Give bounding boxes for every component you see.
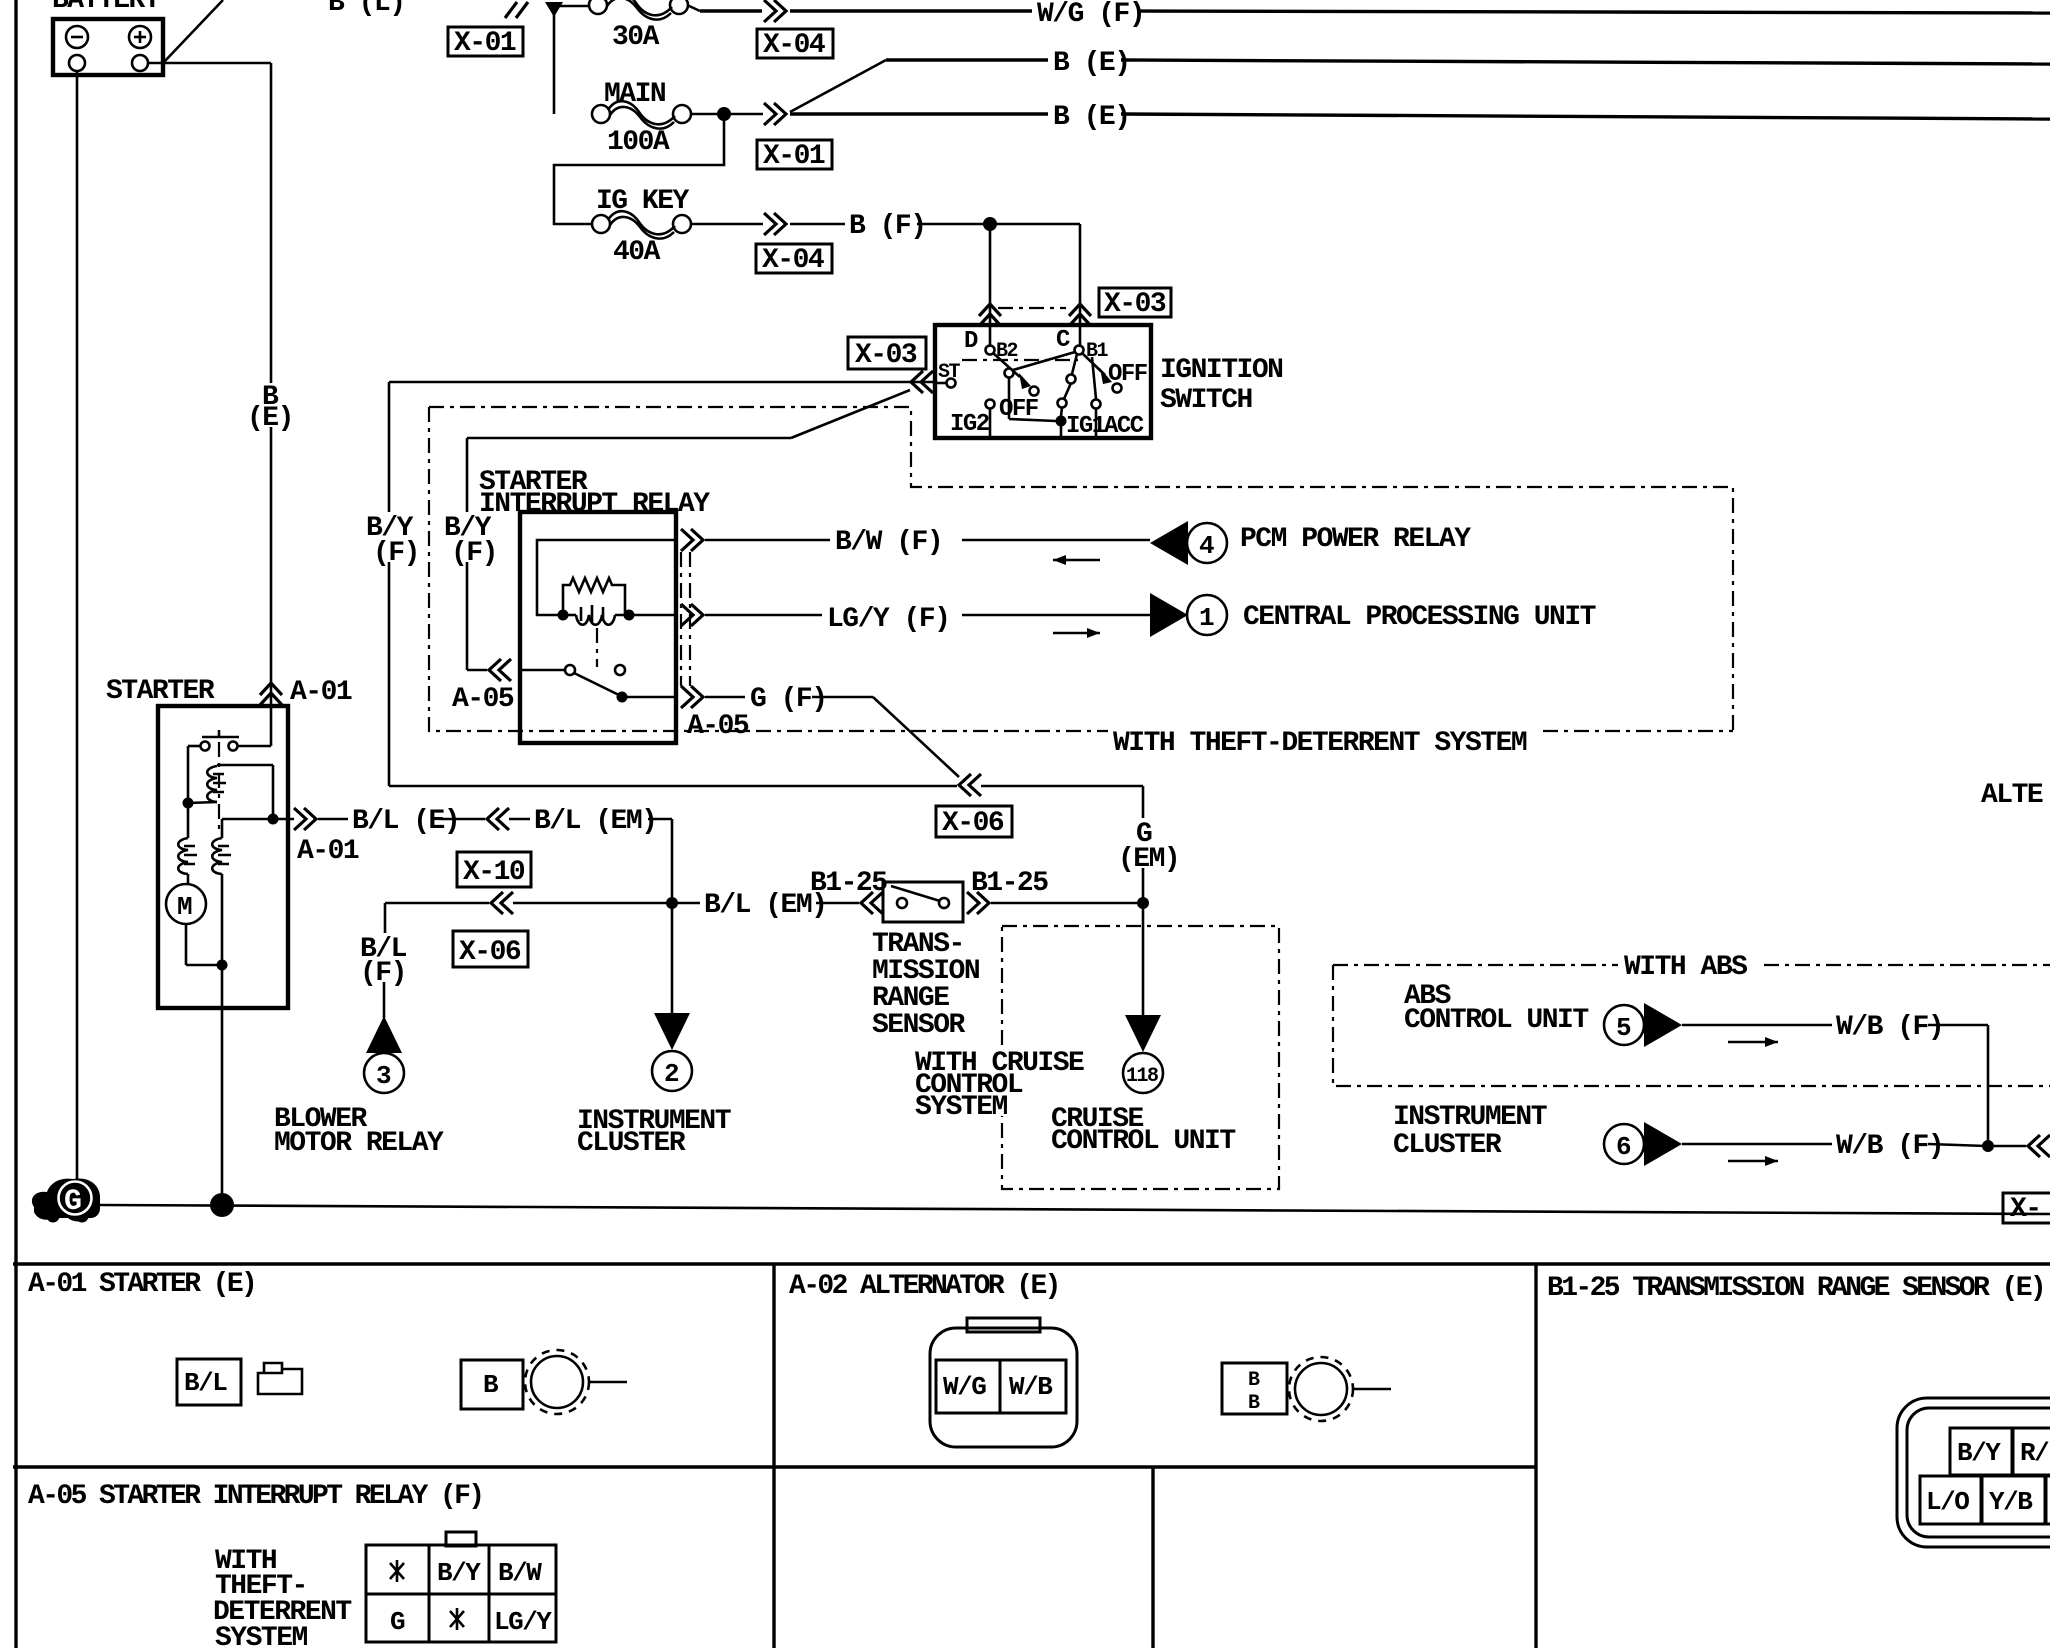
- svg-text:B/W (F): B/W (F): [835, 527, 942, 558]
- svg-text:LG/Y: LG/Y: [494, 1607, 552, 1637]
- svg-text:A-01: A-01: [290, 677, 352, 708]
- junction dot MAIN output: [717, 107, 731, 121]
- chevron MAIN output: [764, 103, 786, 125]
- svg-text:INSTRUMENT: INSTRUMENT: [1393, 1102, 1547, 1133]
- direction arrow right 5: [1728, 1037, 1778, 1047]
- pin box B: [461, 1360, 523, 1409]
- terminal ACC: [1096, 408, 1144, 440]
- wire G (F): [705, 697, 959, 777]
- svg-text:X-04: X-04: [763, 30, 825, 61]
- svg-text:A-05: A-05: [687, 711, 749, 742]
- wire step MAIN junction to IG KEY fuse: [554, 114, 724, 224]
- svg-text:W/B (F): W/B (F): [1836, 1131, 1943, 1162]
- svg-text:L/O: L/O: [1926, 1487, 1969, 1517]
- chevron IG KEY output: [764, 213, 786, 235]
- wire B/Y to G(EM) horizontal: [389, 786, 1143, 1015]
- svg-text:A-02 ALTERNATOR (E): A-02 ALTERNATOR (E): [789, 1271, 1059, 1302]
- svg-text:CENTRAL PROCESSING UNIT: CENTRAL PROCESSING UNIT: [1243, 602, 1596, 633]
- arrow 2 instrument cluster: [652, 1013, 692, 1091]
- wire B/L (EM) upper: [509, 819, 672, 1013]
- starter interrupt relay box: [520, 512, 676, 743]
- svg-text:B1-25: B1-25: [971, 868, 1048, 899]
- svg-text:CLUSTER: CLUSTER: [577, 1128, 686, 1159]
- table outer top border: [13, 1262, 2050, 1265]
- svg-text:1: 1: [1199, 603, 1214, 633]
- svg-text:R/: R/: [2020, 1438, 2049, 1468]
- fuse IG KEY 40A: [592, 186, 691, 268]
- svg-text:BATTERY: BATTERY: [52, 0, 161, 16]
- connector label box X-06: [453, 931, 528, 968]
- ignition C arm to OFF: [1082, 353, 1147, 393]
- connector chevron X-03 on D wire: [979, 304, 1001, 326]
- table row divider: [13, 1465, 1536, 1468]
- wire W/B (F) lower: [1682, 1144, 2026, 1146]
- ignition D arm to OFF: [993, 353, 1039, 423]
- svg-text:B: B: [483, 1370, 499, 1400]
- svg-text:D: D: [964, 328, 978, 355]
- terminal lug icon: [258, 1363, 302, 1394]
- leader line to battery positive: [164, 0, 223, 62]
- connector chevron A-01 on battery wire: [260, 683, 282, 705]
- svg-text:X-03: X-03: [1104, 289, 1166, 320]
- relay switch: [520, 665, 676, 703]
- svg-text:W/B: W/B: [1009, 1372, 1053, 1402]
- table lower middle divider: [1151, 1467, 1154, 1648]
- svg-text:A-01 STARTER (E): A-01 STARTER (E): [28, 1269, 255, 1300]
- chevron sensor input: [861, 892, 883, 914]
- connector label box X-06 right: [936, 806, 1012, 839]
- wire B/L (F) down: [384, 903, 385, 1018]
- connector label box X-01 lower: [757, 140, 832, 172]
- svg-text:C: C: [1056, 327, 1070, 354]
- svg-text:WITH ABS: WITH ABS: [1624, 952, 1747, 983]
- starter pull-in winding: [188, 765, 273, 803]
- page left border: [14, 0, 17, 1264]
- battery BT1: [53, 19, 163, 75]
- connector dashes A-05: [681, 552, 690, 686]
- connector label box X- clipped: [2003, 1193, 2050, 1225]
- direction arrow left: [1053, 555, 1100, 565]
- wire battery plus B(E) down to starter: [148, 63, 271, 704]
- table left border: [14, 1264, 17, 1648]
- svg-text:B/L (E): B/L (E): [352, 806, 459, 837]
- svg-text:G (F): G (F): [750, 684, 827, 715]
- wire fuse feed vertical with arrowhead: [545, 2, 589, 114]
- direction arrow right 6: [1728, 1156, 1778, 1166]
- wire B(F) down to ignition C: [1079, 224, 1082, 347]
- svg-text:B/Y: B/Y: [437, 1558, 481, 1588]
- connector label box X-01: [448, 27, 523, 59]
- svg-text:IG KEY: IG KEY: [596, 186, 690, 217]
- junction dot ground: [210, 1193, 234, 1217]
- wire B(F) down to ignition D: [989, 224, 992, 347]
- wire MAIN fuse output B(E): [690, 114, 2050, 119]
- label CRUISE CONTROL UNIT: [1051, 1104, 1235, 1157]
- svg-text:M: M: [177, 892, 192, 922]
- svg-text:IG1: IG1: [1066, 413, 1106, 440]
- svg-text:(F): (F): [360, 958, 406, 989]
- relay coil: [563, 605, 676, 625]
- svg-text:B: B: [1248, 1392, 1260, 1415]
- connector label box X-04: [757, 29, 833, 61]
- connector label box X-10: [457, 852, 531, 888]
- wire ST to B/Y(F) left: [389, 382, 933, 786]
- wire W/G (F) top line: [700, 11, 2050, 13]
- relay dashed actuator link: [596, 628, 598, 667]
- svg-text:X-: X-: [2010, 1194, 2041, 1225]
- svg-text:(E): (E): [247, 403, 293, 434]
- junction dot starter left: [183, 798, 194, 809]
- chevron relay B/W output: [681, 529, 703, 551]
- svg-text:PCM POWER RELAY: PCM POWER RELAY: [1240, 524, 1471, 555]
- wire 30A to W/G line: [687, 5, 700, 11]
- wire IG KEY output B(F): [690, 223, 1080, 226]
- wire LG/Y (F) to CPU: [705, 614, 1150, 617]
- svg-text:2: 2: [664, 1059, 679, 1089]
- starter solenoid contact: [188, 704, 271, 801]
- svg-text:118: 118: [1126, 1065, 1158, 1088]
- ground symbol G: [32, 1178, 100, 1222]
- wire W/B (F) upper: [1682, 1025, 1988, 1146]
- svg-text:ACC: ACC: [1104, 413, 1144, 440]
- svg-text:STARTER: STARTER: [106, 676, 215, 707]
- terminal IG2: [950, 400, 995, 439]
- svg-text:B/L (EM): B/L (EM): [534, 806, 656, 837]
- chevron W/B right edge: [2028, 1135, 2050, 1157]
- arrow 4 PCM POWER RELAY: [1150, 521, 1227, 565]
- svg-text:CONTROL UNIT: CONTROL UNIT: [1404, 1005, 1588, 1036]
- connector chevron X-03 on C wire: [1069, 304, 1091, 326]
- B1-25 connector: [1897, 1398, 2050, 1547]
- svg-text:6: 6: [1616, 1132, 1631, 1162]
- svg-text:(F): (F): [373, 538, 419, 569]
- connector label box X-03 top: [1099, 288, 1171, 320]
- arrow 3 blower motor relay: [364, 1016, 404, 1093]
- starter dashed actuator: [218, 742, 220, 834]
- junction dot G(EM): [1137, 897, 1149, 909]
- svg-text:W/G (F): W/G (F): [1037, 0, 1144, 30]
- svg-text:W/B (F): W/B (F): [1836, 1012, 1943, 1043]
- svg-text:SYSTEM: SYSTEM: [215, 1623, 308, 1648]
- svg-text:LG/Y (F): LG/Y (F): [827, 604, 949, 635]
- dashed mechanical link in ignition switch: [962, 359, 1078, 361]
- svg-text:X-03: X-03: [855, 340, 917, 371]
- ground bus wire: [100, 1205, 2050, 1214]
- svg-text:(F): (F): [451, 538, 497, 569]
- ignition switch box: [935, 325, 1151, 438]
- wire B/L (E): [273, 818, 485, 821]
- svg-text:CONTROL UNIT: CONTROL UNIT: [1051, 1126, 1235, 1157]
- table divider A-01/A-02: [772, 1264, 775, 1648]
- ring terminal A-01: [525, 1350, 627, 1414]
- label WITH THEFT-DETERRENT SYSTEM table: [213, 1546, 351, 1648]
- svg-text:X-04: X-04: [762, 245, 824, 276]
- svg-text:(EM): (EM): [1118, 844, 1179, 875]
- chevron relay input A-05: [489, 659, 511, 681]
- cruise control dashed box: [1002, 926, 1279, 1189]
- svg-text:B/L: B/L: [184, 1368, 227, 1398]
- wire ST diagonal to B/Y(F) second: [467, 390, 910, 670]
- starter motor M: [166, 884, 222, 965]
- svg-text:B (L): B (L): [328, 0, 405, 19]
- svg-text:B (F): B (F): [849, 211, 926, 242]
- svg-text:B/W: B/W: [498, 1558, 542, 1588]
- starter hold winding left: [178, 803, 197, 884]
- svg-text:30A: 30A: [612, 22, 660, 53]
- svg-text:SENSOR: SENSOR: [872, 1010, 966, 1041]
- chevron on G wire: [959, 774, 981, 796]
- svg-text:B (E): B (E): [1053, 48, 1130, 79]
- fuse 30A: [589, 0, 688, 20]
- svg-text:B (E): B (E): [1053, 102, 1130, 133]
- starter winding right: [212, 819, 231, 965]
- svg-text:X-01: X-01: [454, 28, 516, 59]
- direction arrow right: [1053, 628, 1100, 638]
- svg-text:ALTE: ALTE: [1981, 780, 2043, 811]
- chevron relay LG/Y output: [681, 604, 703, 626]
- terminal IG1: [1056, 413, 1106, 440]
- wire battery minus to ground: [76, 71, 79, 1182]
- chevron X-06: [491, 892, 513, 914]
- alternator connector: [930, 1318, 1077, 1447]
- arrow 1 CENTRAL PROCESSING UNIT: [1150, 593, 1227, 637]
- svg-text:CLUSTER: CLUSTER: [1393, 1130, 1502, 1161]
- pin box B B: [1222, 1363, 1287, 1415]
- svg-text:A-01: A-01: [297, 836, 359, 867]
- dash between X-03 chevrons: [998, 307, 1066, 309]
- svg-text:IGNITION: IGNITION: [1160, 355, 1282, 386]
- svg-text:B1-25: B1-25: [810, 868, 887, 899]
- svg-text:MOTOR RELAY: MOTOR RELAY: [274, 1128, 444, 1159]
- junction dot starter B/L: [268, 814, 279, 825]
- svg-text:B/L (EM): B/L (EM): [704, 890, 826, 921]
- label TRANS-MISSION RANGE SENSOR: [872, 929, 979, 1041]
- chevron X-10: [487, 808, 509, 830]
- starter box: [158, 706, 288, 1008]
- ignition C fan contacts: [1005, 352, 1101, 421]
- fuse MAIN 100A: [592, 79, 691, 158]
- svg-text:ST: ST: [938, 361, 961, 384]
- arrow 118 cruise control unit: [1123, 1015, 1163, 1093]
- chevron on W/G line: [764, 0, 786, 22]
- junction dot W/B: [1982, 1140, 1994, 1152]
- svg-text:IG2: IG2: [950, 411, 989, 438]
- label WITH CRUISE CONTROL SYSTEM: [912, 1046, 1092, 1123]
- wire starter to ground: [221, 965, 224, 1206]
- arrow 5 ABS control unit: [1604, 1003, 1682, 1047]
- chevron ST wire: [911, 371, 933, 393]
- svg-text:B/Y: B/Y: [1957, 1438, 2001, 1468]
- svg-text:X-06: X-06: [459, 937, 521, 968]
- chevron relay G output: [681, 686, 703, 708]
- svg-text:X-06: X-06: [942, 808, 1004, 839]
- label ABS CONTROL UNIT: [1404, 981, 1588, 1036]
- junction dot B(F): [983, 217, 997, 231]
- svg-text:SYSTEM: SYSTEM: [915, 1092, 1008, 1123]
- chevron pair top (clipped wire): [505, 2, 528, 18]
- svg-text:SWITCH: SWITCH: [1160, 385, 1252, 416]
- svg-text:5: 5: [1616, 1013, 1631, 1043]
- label INSTRUMENT CLUSTER right: [1393, 1102, 1547, 1161]
- svg-text:100A: 100A: [607, 127, 670, 158]
- relay resistor: [563, 578, 625, 615]
- svg-text:B1-25 TRANSMISSION RANGE SENSO: B1-25 TRANSMISSION RANGE SENSOR (E): [1547, 1273, 2044, 1304]
- starter B/L tap wire: [222, 765, 273, 819]
- svg-text:W/G: W/G: [943, 1372, 986, 1402]
- svg-text:A-05: A-05: [452, 684, 514, 715]
- connector A-05 pin grid: [366, 1532, 556, 1642]
- wire B/W (F) to PCM relay: [705, 539, 1150, 542]
- svg-text:G: G: [390, 1607, 405, 1637]
- svg-text:OFF: OFF: [1108, 361, 1147, 388]
- svg-text:40A: 40A: [613, 237, 661, 268]
- chevron starter B/L output A-01: [294, 808, 316, 830]
- wire B/L (EM) lower branch: [385, 902, 859, 905]
- svg-text:X-10: X-10: [463, 857, 525, 888]
- connector label box X-03 left: [848, 337, 926, 371]
- svg-text:G: G: [64, 1185, 81, 1219]
- svg-text:WITH THEFT-DETERRENT SYSTEM: WITH THEFT-DETERRENT SYSTEM: [1113, 728, 1527, 759]
- transmission range sensor box: [883, 882, 963, 922]
- svg-text:B: B: [1248, 1369, 1260, 1392]
- svg-text:4: 4: [1199, 531, 1214, 561]
- wire sensor to G(EM) junction: [991, 902, 1143, 905]
- with ABS dashed box: [1333, 965, 2050, 1086]
- arrow 6 instrument cluster: [1604, 1122, 1682, 1166]
- svg-text:X-01: X-01: [763, 141, 825, 172]
- svg-text:Y/B: Y/B: [1989, 1487, 2033, 1517]
- pin box B/L: [177, 1359, 241, 1405]
- relay internal B/W wire: [537, 540, 676, 615]
- junction dot B/L (EM): [666, 897, 678, 909]
- connector label box X-04 lower: [756, 244, 832, 276]
- table divider A-02/B1-25: [1534, 1264, 1537, 1648]
- wire diagonal branch to upper B(E): [790, 60, 2050, 112]
- chevron sensor output: [967, 892, 989, 914]
- ring terminal A-02: [1289, 1357, 1391, 1421]
- terminal ST: [935, 361, 961, 388]
- relay coil junction dots: [558, 610, 569, 621]
- junction dot starter bottom: [217, 960, 228, 971]
- svg-text:3: 3: [376, 1061, 391, 1091]
- svg-text:A-05 STARTER INTERRUPT RELAY (: A-05 STARTER INTERRUPT RELAY (F): [28, 1481, 483, 1512]
- theft-deterrent dashed box: [429, 407, 1733, 731]
